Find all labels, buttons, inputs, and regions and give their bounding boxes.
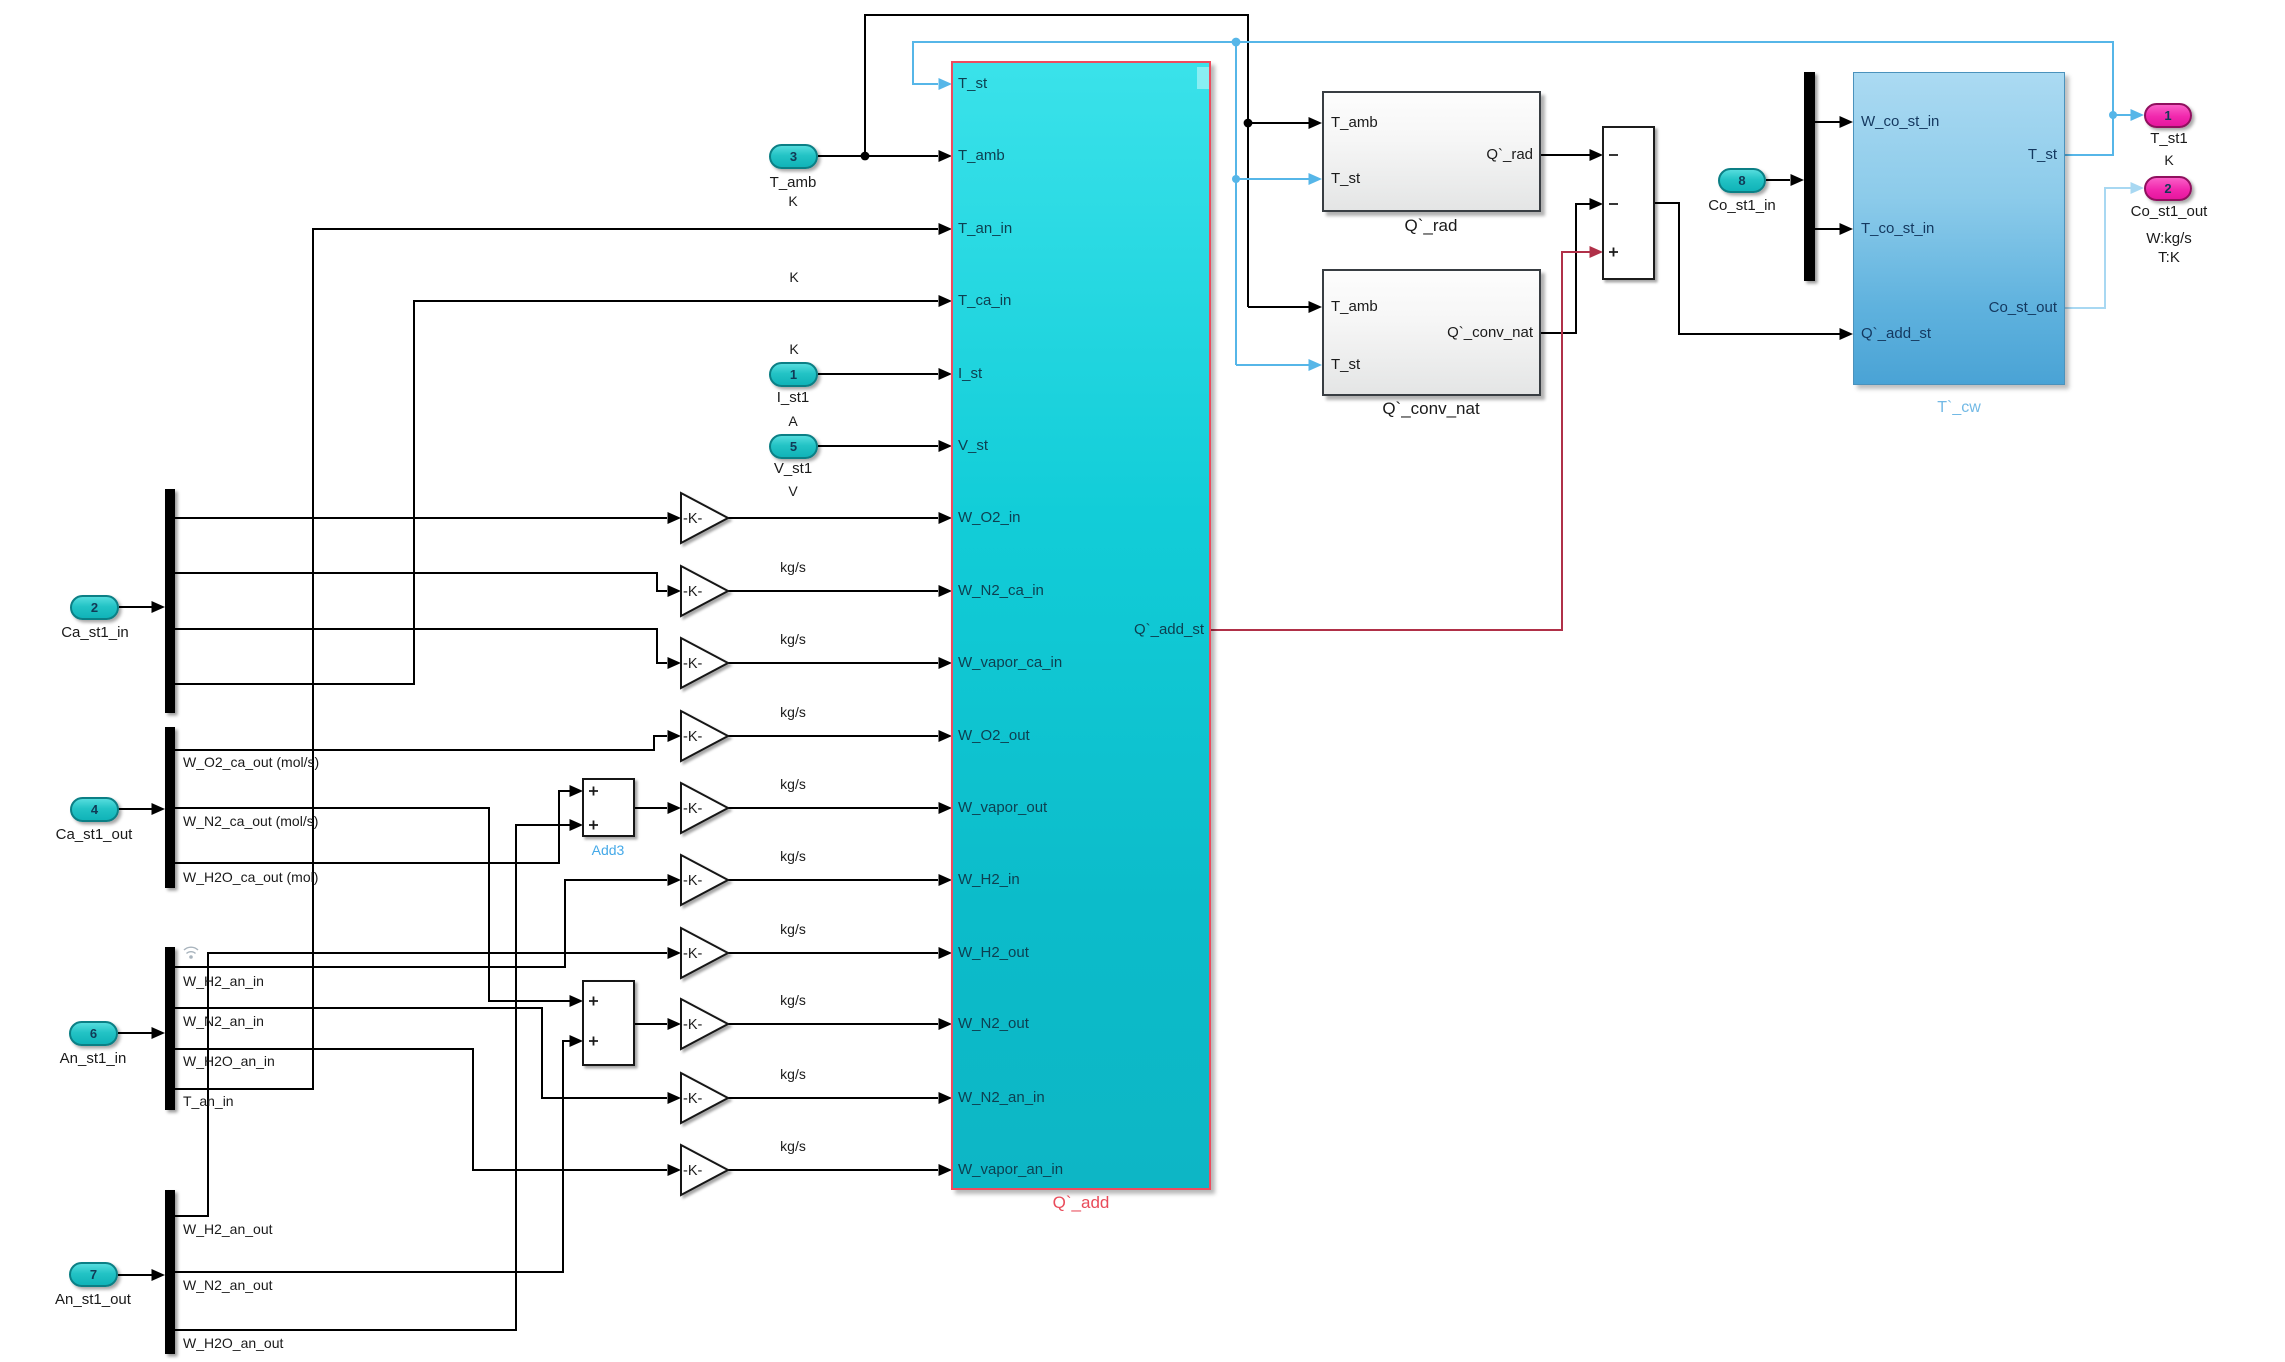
svg-text:-K-: -K- <box>683 946 703 962</box>
svg-text:-K-: -K- <box>683 729 703 745</box>
svg-text:-K-: -K- <box>683 1091 703 1107</box>
svg-text:-K-: -K- <box>683 873 703 889</box>
svg-text:-K-: -K- <box>683 656 703 672</box>
svg-text:-K-: -K- <box>683 801 703 817</box>
svg-text:-K-: -K- <box>683 584 703 600</box>
svg-text:-K-: -K- <box>683 511 703 527</box>
svg-text:-K-: -K- <box>683 1163 703 1179</box>
svg-text:-K-: -K- <box>683 1017 703 1033</box>
